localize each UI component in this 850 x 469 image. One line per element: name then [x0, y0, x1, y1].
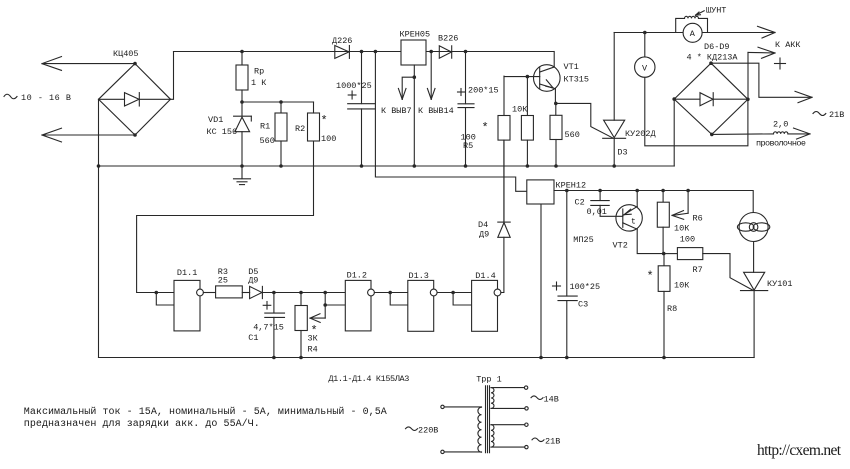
svg-text:D1.4: D1.4 — [475, 271, 495, 281]
bridge rectifier KЦ405 — [99, 49, 171, 137]
diode D4 Д9 — [478, 140, 510, 239]
svg-text:К ВЫВ14: К ВЫВ14 — [418, 106, 454, 116]
svg-text:10 - 16 В: 10 - 16 В — [21, 93, 71, 103]
svg-text:КРЕН05: КРЕН05 — [400, 30, 431, 40]
wire bottom rail — [99, 357, 755, 359]
diode D5 Д9 — [248, 267, 345, 299]
gate D1.1 — [174, 268, 216, 331]
svg-text:21В: 21В — [545, 437, 560, 447]
wire emitter to thyristor gate — [556, 103, 613, 137]
gate D1.3 — [408, 271, 472, 331]
svg-text:КРЕН12: КРЕН12 — [556, 181, 587, 191]
wire bridge top corner to ~21В arrow — [711, 63, 812, 102]
resistor R5 *100 — [461, 76, 511, 222]
svg-text:R2: R2 — [295, 124, 305, 134]
node ~14В label — [531, 395, 559, 405]
resistor R1 560 — [260, 102, 288, 168]
zener VD1 КС156 — [207, 102, 252, 166]
svg-text:4 * КД213А: 4 * КД213А — [687, 53, 739, 63]
svg-text:R8: R8 — [667, 304, 677, 314]
svg-text:0,01: 0,01 — [587, 207, 607, 217]
thyristor КУ101 — [741, 272, 793, 357]
svg-text:Максимальный ток - 15А, номина: Максимальный ток - 15А, номинальный - 5А… — [24, 406, 387, 418]
arrow К ВЫВ14 — [418, 50, 454, 116]
svg-text:VT1: VT1 — [564, 62, 579, 72]
node Rp bottom / R1 R2 top — [240, 100, 313, 104]
svg-text:R7: R7 — [693, 265, 703, 275]
lamp indicator — [737, 213, 769, 273]
svg-text:1 К: 1 К — [251, 78, 266, 88]
svg-text:КЦ405: КЦ405 — [113, 49, 139, 59]
svg-text:*: * — [482, 121, 489, 135]
svg-text:VT2: VT2 — [613, 241, 628, 251]
wire R4 wiper / D1.2 input 2 — [310, 291, 345, 323]
transistor VT1 КТ315 — [504, 52, 589, 104]
svg-text:С2: С2 — [575, 198, 585, 208]
wire branch to КРЕН12 input — [374, 50, 527, 192]
capacitor C3 100*25 — [553, 191, 601, 360]
resistor 560 (VT1 emitter) — [550, 102, 580, 168]
svg-text:10К: 10К — [512, 105, 527, 115]
shunt ШУНТ — [676, 6, 727, 33]
wire AC input top with arrow — [42, 57, 135, 71]
svg-text:*: * — [647, 270, 654, 284]
svg-text:560: 560 — [260, 136, 275, 146]
svg-text:С3: С3 — [578, 300, 588, 310]
svg-text:D1.3: D1.3 — [409, 271, 429, 281]
svg-text:VD1: VD1 — [208, 115, 223, 125]
svg-text:Д9: Д9 — [248, 276, 258, 286]
svg-text:R1: R1 — [260, 122, 270, 132]
wire ammeter line — [614, 26, 775, 38]
wire R2 bottom to D1.1 inputs — [137, 141, 314, 305]
svg-text:КУ202Д: КУ202Д — [625, 129, 656, 139]
svg-text:4,7*15: 4,7*15 — [253, 323, 284, 333]
svg-text:К ВЫВ7: К ВЫВ7 — [381, 106, 412, 116]
svg-text:Д1.1-Д1.4 К155ЛА3: Д1.1-Д1.4 К155ЛА3 — [328, 374, 409, 384]
svg-text:100: 100 — [680, 235, 695, 245]
resistor R3 25 — [216, 267, 250, 298]
diode Д226 — [332, 36, 352, 58]
svg-text:R5: R5 — [463, 141, 473, 151]
svg-text:С1: С1 — [248, 333, 258, 343]
resistor R2 100 — [295, 102, 336, 144]
bridge rectifier D6-D9 4x КД213А — [672, 42, 749, 136]
wire AC input bottom with arrow — [42, 128, 135, 142]
wire top supply rail — [174, 51, 554, 53]
svg-text:1000*25: 1000*25 — [336, 81, 372, 91]
svg-text:http://cxem.net: http://cxem.net — [757, 442, 842, 459]
gate D1.2 — [345, 271, 408, 331]
svg-text:Трр 1: Трр 1 — [476, 375, 502, 385]
node AC input label ~10-16V — [4, 93, 71, 103]
capacitor C1 4,7*15 — [248, 291, 284, 360]
transformer Трр1 — [441, 375, 528, 454]
node ~21В label — [813, 110, 844, 120]
transistor VT2 МП25 — [573, 191, 665, 256]
gate D1.4 — [472, 237, 504, 331]
resistor 10K (VT1 base) — [512, 76, 533, 168]
wire КРЕН05 ground pin to bus — [413, 65, 417, 168]
svg-text:КТ315: КТ315 — [564, 75, 590, 85]
svg-text:10К: 10К — [674, 224, 689, 234]
svg-text:25: 25 — [218, 276, 228, 286]
svg-text:Д226: Д226 — [332, 36, 352, 46]
potentiometer R6 10K — [657, 191, 702, 254]
svg-text:D1.1: D1.1 — [177, 268, 197, 278]
svg-text:220В: 220В — [418, 426, 438, 436]
node ~220В label — [406, 426, 439, 436]
svg-text:предназначен для зарядки акк.: предназначен для зарядки акк. до 55А/Ч. — [24, 418, 260, 430]
svg-text:D3: D3 — [617, 148, 627, 158]
svg-text:21В: 21В — [829, 110, 844, 120]
svg-text:КС 156: КС 156 — [207, 127, 238, 137]
svg-text:t: t — [631, 218, 636, 227]
svg-text:*: * — [321, 114, 328, 128]
resistor R7 100 — [664, 235, 753, 291]
diode В226 — [438, 34, 458, 59]
wire right corner of KЦ405 up to top rail — [171, 52, 174, 100]
regulator U КРЕН05 — [400, 30, 431, 66]
svg-text:D1.2: D1.2 — [347, 271, 367, 281]
svg-text:D4: D4 — [478, 220, 488, 230]
svg-text:В226: В226 — [438, 34, 458, 44]
svg-text:100: 100 — [321, 134, 336, 144]
svg-text:R4: R4 — [308, 345, 318, 355]
svg-text:200*15: 200*15 — [468, 86, 499, 96]
svg-text:А: А — [690, 29, 696, 39]
ground — [234, 164, 251, 184]
svg-text:10К: 10К — [674, 281, 689, 291]
wire К АКК + arrow — [748, 40, 801, 99]
potentiometer R4 3K — [295, 291, 318, 360]
svg-text:V: V — [642, 63, 648, 73]
regulator КРЕН12 — [527, 180, 586, 359]
voltmeter V — [635, 33, 748, 146]
svg-text:14В: 14В — [544, 395, 559, 405]
svg-text:3К: 3К — [308, 334, 318, 344]
capacitor 1000*25 — [336, 50, 375, 168]
svg-text:ШУНТ: ШУНТ — [706, 6, 726, 16]
wire left corner of KЦ405 down to bottom rail — [98, 99, 100, 357]
svg-text:проволочное: проволочное — [756, 139, 806, 149]
svg-text:К АКК: К АКК — [775, 40, 801, 50]
svg-text:Rp: Rp — [254, 67, 264, 77]
capacitor 200*15 — [458, 50, 499, 168]
resistor R8 *10K — [647, 254, 690, 360]
wire ground bus — [97, 99, 675, 168]
resistor Rp 1K — [236, 50, 266, 102]
svg-text:2,0: 2,0 — [773, 120, 788, 130]
ammeter A — [683, 23, 702, 42]
svg-text:R6: R6 — [693, 214, 703, 224]
svg-text:560: 560 — [565, 130, 580, 140]
svg-text:100*25: 100*25 — [570, 282, 601, 292]
svg-text:Д9: Д9 — [479, 230, 489, 240]
resistor 2,0 проволочное with arrow — [712, 120, 810, 149]
capacitor C2 0,01 — [575, 191, 623, 218]
thyristor D3 КУ202Д — [603, 33, 656, 168]
wire КРЕН12 output rail — [554, 189, 753, 213]
node ~21В secondary label — [532, 437, 560, 447]
svg-text:D6-D9: D6-D9 — [704, 42, 730, 52]
svg-text:КУ101: КУ101 — [767, 279, 793, 289]
svg-text:МП25: МП25 — [573, 235, 593, 245]
arrow К ВЫВ7 — [381, 75, 416, 116]
node description text — [24, 406, 387, 430]
